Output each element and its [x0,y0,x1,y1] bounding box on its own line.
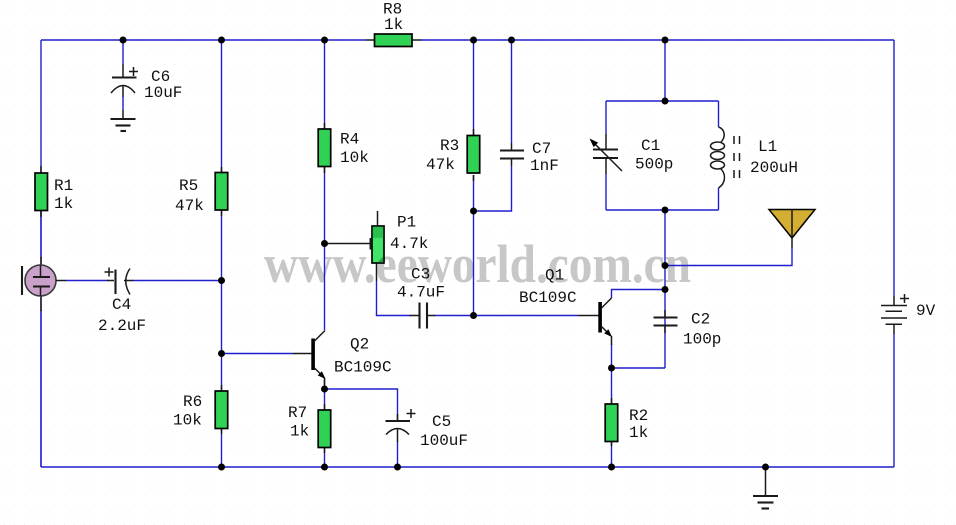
svg-text:10uF: 10uF [144,84,182,102]
wire C6 branch [122,40,124,64]
svg-text:4.7uF: 4.7uF [397,284,445,302]
transistor Q2 [293,331,392,390]
svg-text:100p: 100p [683,331,721,349]
svg-text:C7: C7 [532,140,551,158]
wire Q1 emitter down [611,344,613,404]
resistor R8 [366,1,421,47]
wire C7 bottom to R3 wire [474,166,512,211]
wire tank top [606,100,719,102]
node dot antenna [662,262,669,269]
wire mic to C4 [66,280,108,282]
capacitor C4 [98,268,146,336]
resistor R2 [605,398,648,446]
svg-text:47k: 47k [426,156,455,174]
wire R3 branch [473,40,475,135]
node dot R3/C7 [470,208,477,215]
ground (C6) [111,119,136,131]
svg-text:R7: R7 [288,404,307,422]
wire emitter node to C2 bottom [612,367,666,369]
svg-text:L1: L1 [758,138,777,156]
microphone MIC [22,257,66,311]
svg-text:1k: 1k [54,195,73,213]
wire emitter node to C5 [325,389,398,421]
resistor R1 [35,166,73,217]
svg-text:500p: 500p [635,156,673,174]
svg-text:47k: 47k [175,197,204,215]
resistor R3 [426,129,480,181]
svg-text:R6: R6 [183,393,202,411]
svg-text:Q1: Q1 [545,267,564,285]
node dot Q2 base [218,350,225,357]
svg-text:100uF: 100uF [420,432,468,450]
ground (main) [753,467,778,509]
battery 9V [881,294,936,334]
node dot Q1 base [470,312,477,319]
svg-text:BC109C: BC109C [334,359,392,377]
wire R3 to C7 node [473,175,475,316]
node dots top rail [120,37,127,44]
svg-text:4.7k: 4.7k [390,235,428,253]
capacitor C5 [386,409,469,450]
svg-text:R4: R4 [340,131,359,149]
svg-text:R3: R3 [440,137,459,155]
wire mic branch [40,210,42,258]
capacitor C2 [654,310,722,349]
inductor L1 [711,127,799,188]
wire C5 to bottom rail [397,441,399,467]
wire R5 to C4 node and R6 [221,210,223,391]
antenna [769,210,815,249]
wire right rail bottom (from battery) [893,334,895,467]
svg-text:C3: C3 [411,266,430,284]
wire tank feed [664,40,666,101]
wire P1 bottom to C3 [377,281,412,316]
wire Q2 emitter to R7 and C5 [324,379,326,411]
svg-text:C4: C4 [112,296,131,314]
svg-text:200uH: 200uH [750,159,798,177]
node dot P1 wiper [321,240,328,247]
potentiometer P1 [325,211,429,281]
wire R4 to P1 wiper node to Q2 collector [324,166,326,330]
svg-text:R5: R5 [179,177,198,195]
wire top rail right [421,39,895,41]
svg-text:Q2: Q2 [350,336,369,354]
wire left rail [40,40,42,467]
wire R7 to bottom rail [324,447,326,467]
transistor Q1 [519,267,612,346]
wire Q1 collector to C2 top [612,290,666,299]
node dots tank [662,98,669,105]
wire Q2 base [222,353,294,355]
svg-text:10k: 10k [340,149,369,167]
wire R6 to bottom rail [221,428,223,467]
resistor R6 [173,385,228,434]
svg-text:BC109C: BC109C [519,289,577,307]
wire C1 bottom [605,174,607,210]
wire C4 to node [133,280,222,282]
node dot Q2 emitter [321,386,328,393]
node dot C4/R5 [218,277,225,284]
capacitor C3 [397,266,445,329]
wire R2 to bottom rail [611,440,613,467]
resistor R5 [175,167,228,216]
svg-text:1k: 1k [629,424,648,442]
wire tank left (C1) [605,101,607,134]
wire bottom rail [41,466,894,468]
capacitor C1 (variable) [590,134,674,174]
node dots bottom rail [218,464,225,471]
svg-text:2.2uF: 2.2uF [98,317,146,335]
resistor R4 [318,123,369,173]
svg-text:10k: 10k [173,412,202,430]
wire C3 to Q1 base node [435,315,474,317]
svg-text:1k: 1k [290,423,309,441]
svg-text:C1: C1 [641,137,660,155]
wire tank to antenna node [664,210,666,368]
wire C7 branch [511,40,513,143]
svg-text:C5: C5 [432,413,451,431]
svg-text:9V: 9V [916,302,936,320]
wire top rail left [41,39,366,41]
svg-text:C2: C2 [691,311,710,329]
wire antenna [665,248,792,266]
wire tank bottom [606,209,719,211]
wire R5 branch [221,40,223,172]
svg-text:R1: R1 [54,177,73,195]
svg-text:1nF: 1nF [530,157,559,175]
node dot Q1 emitter [608,365,615,372]
wire R4 branch [324,40,326,129]
svg-text:R2: R2 [629,407,648,425]
wire right rail top (to battery) [893,40,895,296]
svg-text:1k: 1k [384,16,403,34]
capacitor C6 [111,64,182,119]
node dot collector/C2 [662,286,669,293]
wire mic bottom [40,310,42,467]
wire Q1 base [474,315,579,317]
resistor R7 [288,404,331,453]
capacitor C7 [500,140,559,175]
wire tank right (L1) top [718,101,720,127]
svg-text:P1: P1 [397,214,416,232]
wire L1 bottom [718,188,720,210]
